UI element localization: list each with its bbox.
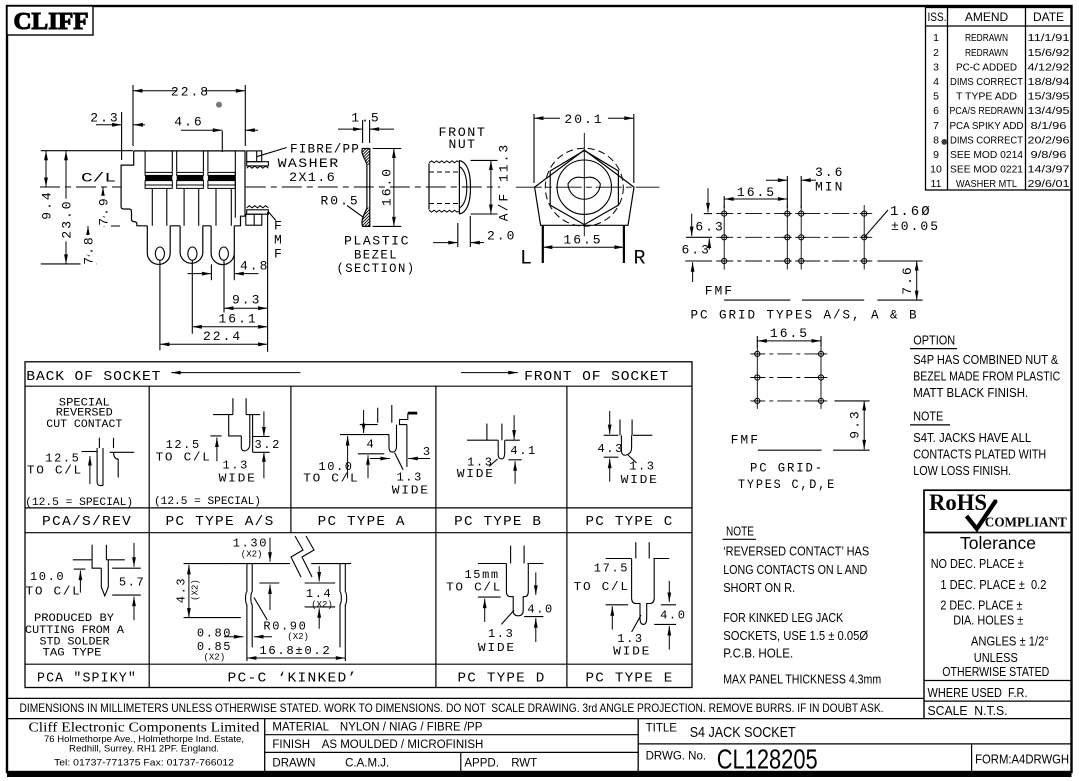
svg-text:9.4: 9.4 xyxy=(40,190,55,219)
svg-text:PC-C ADDED: PC-C ADDED xyxy=(956,61,1017,73)
label FIBRE/PP WASHER 2X1.6 with leader xyxy=(257,142,360,186)
dimension 9.4 (vertical) xyxy=(40,151,55,220)
svg-text:PLASTIC: PLASTIC xyxy=(344,234,410,249)
svg-text:PC GRID TYPES A/S, A & B: PC GRID TYPES A/S, A & B xyxy=(691,308,919,323)
label 1.6 dia +/-0.05 with leader xyxy=(864,204,940,237)
svg-text:(12.5 = SPECIAL): (12.5 = SPECIAL) xyxy=(25,497,133,509)
svg-text:23.0: 23.0 xyxy=(60,199,75,238)
svg-text:MATT BLACK FINISH.: MATT BLACK FINISH. xyxy=(913,385,1028,400)
svg-text:REDRAWN: REDRAWN xyxy=(965,47,1008,59)
svg-text:REDRAWN: REDRAWN xyxy=(965,32,1008,44)
side view: contact 2 tail lines xyxy=(183,188,185,225)
dimension 4.8 xyxy=(188,255,270,280)
PC grid C,D,E: hole pattern xyxy=(750,346,828,409)
svg-text:22.8: 22.8 xyxy=(171,85,210,100)
svg-text:S4 JACK SOCKET: S4 JACK SOCKET xyxy=(690,724,796,741)
svg-text:3: 3 xyxy=(933,61,939,73)
svg-text:1.6Ø: 1.6Ø xyxy=(890,204,932,220)
front view: pentagon body outline xyxy=(535,150,634,225)
svg-text:FRONT OF SOCKET: FRONT OF SOCKET xyxy=(524,369,669,385)
side view: rear bush, nut and fibre washer (bottom) xyxy=(246,206,269,226)
dimension A/F 11.3 xyxy=(471,143,512,221)
svg-text:WIDE: WIDE xyxy=(392,484,430,498)
svg-text:2.3: 2.3 xyxy=(90,111,119,126)
svg-text:OPTION: OPTION xyxy=(913,333,955,348)
title PC GRID- TYPES C,D,E xyxy=(738,461,836,493)
front nut threaded bush xyxy=(429,161,459,212)
svg-text:WIDE: WIDE xyxy=(457,467,495,481)
svg-text:(X2): (X2) xyxy=(311,600,333,610)
front view: hex nut outline xyxy=(550,151,618,225)
side view: contact stack 3 (black insulator stripe) xyxy=(208,172,235,225)
side view: top slot 2 xyxy=(202,151,204,172)
dimension 16.5 (grid C,D,E) xyxy=(757,326,821,347)
svg-text:8: 8 xyxy=(933,134,939,146)
left extension ticks xyxy=(41,150,133,152)
svg-text:COMPLIANT: COMPLIANT xyxy=(985,516,1068,531)
svg-text:3.2: 3.2 xyxy=(255,438,281,452)
svg-text:FIBRE/PP: FIBRE/PP xyxy=(290,142,360,157)
front view: centre lines xyxy=(516,133,660,236)
label FRONT NUT xyxy=(439,125,487,152)
svg-text:4.8: 4.8 xyxy=(240,259,269,274)
svg-text:20.1: 20.1 xyxy=(564,112,603,127)
dimension 2.3 xyxy=(90,111,145,161)
svg-text:10.0: 10.0 xyxy=(30,570,65,584)
svg-text:DIMS CORRECT: DIMS CORRECT xyxy=(950,134,1024,146)
svg-text:WASHER: WASHER xyxy=(278,156,340,171)
svg-text:SEE MOD 0221: SEE MOD 0221 xyxy=(950,164,1023,176)
NOTE S4T text block xyxy=(910,409,1046,478)
svg-text:PCA ″SPIKY″: PCA ″SPIKY″ xyxy=(37,671,137,687)
svg-text:APPD.: APPD. xyxy=(464,758,499,770)
svg-text:WASHER MTL: WASHER MTL xyxy=(956,178,1017,190)
svg-text:BEZEL MADE FROM PLASTIC: BEZEL MADE FROM PLASTIC xyxy=(913,368,1060,383)
svg-text:DIMENSIONS IN MILLIMETERS UNLE: DIMENSIONS IN MILLIMETERS UNLESS OTHERWI… xyxy=(20,701,884,715)
svg-text:Redhill, Surrey. RH1 2PF. Engl: Redhill, Surrey. RH1 2PF. England. xyxy=(69,744,219,754)
svg-text:S4T. JACKS HAVE ALL: S4T. JACKS HAVE ALL xyxy=(913,430,1031,445)
svg-text:1.4: 1.4 xyxy=(306,587,332,601)
svg-text:1.3: 1.3 xyxy=(629,460,655,474)
svg-text:1.5: 1.5 xyxy=(351,111,380,126)
svg-text:FOR KINKED LEG JACK: FOR KINKED LEG JACK xyxy=(723,610,843,625)
svg-text:(X2): (X2) xyxy=(287,632,309,642)
svg-text:AS MOULDED / MICROFINISH: AS MOULDED / MICROFINISH xyxy=(322,739,484,751)
plastic bezel section profile with hatching xyxy=(359,141,371,239)
svg-text:7.6: 7.6 xyxy=(900,265,915,294)
svg-text:CLIFF: CLIFF xyxy=(14,9,89,35)
svg-text:PC TYPE A/S: PC TYPE A/S xyxy=(166,514,275,530)
svg-text:16.1: 16.1 xyxy=(219,311,258,326)
svg-text:PC GRID-: PC GRID- xyxy=(750,461,824,476)
svg-text:WHERE USED F.R.: WHERE USED F.R. xyxy=(928,686,1028,700)
svg-text:3.6: 3.6 xyxy=(815,165,844,180)
svg-text:‘REVERSED CONTACT’ HAS: ‘REVERSED CONTACT’ HAS xyxy=(723,544,869,559)
NOTE reversed contact text block xyxy=(723,524,870,596)
svg-text:2X1.6: 2X1.6 xyxy=(289,170,336,185)
svg-text:1: 1 xyxy=(933,32,939,44)
svg-text:R0.5: R0.5 xyxy=(321,194,360,209)
svg-text:7.8: 7.8 xyxy=(82,235,97,264)
centre line C/L through side, bezel and nut views xyxy=(40,186,121,188)
svg-text:4.0: 4.0 xyxy=(527,603,553,617)
svg-text:8/1/96: 8/1/96 xyxy=(1031,120,1067,132)
svg-text:29/6/01: 29/6/01 xyxy=(1028,178,1070,190)
svg-text:(X2): (X2) xyxy=(204,653,226,663)
svg-text:UNLESS: UNLESS xyxy=(974,650,1018,665)
svg-text:9.3: 9.3 xyxy=(232,293,261,308)
front view: jack tip contact opening xyxy=(568,177,600,199)
svg-text:(X2): (X2) xyxy=(191,579,201,601)
svg-text:20/2/96: 20/2/96 xyxy=(1028,134,1070,146)
lug hole extension lines xyxy=(159,260,161,350)
svg-text:RWT: RWT xyxy=(511,758,537,770)
svg-text:WIDE: WIDE xyxy=(613,645,651,659)
svg-text:AMEND: AMEND xyxy=(965,10,1009,24)
svg-text:TAG TYPE: TAG TYPE xyxy=(43,648,102,660)
svg-text:Cliff Electronic Components Li: Cliff Electronic Components Limited xyxy=(29,720,260,735)
svg-text:1.3: 1.3 xyxy=(223,459,249,473)
side view: contact 3 tail lines xyxy=(215,188,217,225)
label R0.5 with leader xyxy=(321,194,363,217)
table header BACK OF SOCKET xyxy=(26,369,300,385)
svg-text:OTHERWISE STATED: OTHERWISE STATED xyxy=(942,664,1049,679)
dimension 3.6 MIN xyxy=(766,165,844,208)
svg-text:6.3: 6.3 xyxy=(682,243,711,258)
svg-text:1 DEC. PLACE ± 0.2: 1 DEC. PLACE ± 0.2 xyxy=(940,577,1046,592)
front view: right leg xyxy=(623,226,625,263)
title block drawing number row xyxy=(646,744,1070,775)
cell PC TYPE B contact detail xyxy=(457,415,537,484)
svg-text:F: F xyxy=(274,247,282,262)
front nut head profile xyxy=(459,160,470,214)
RoHS compliant logo box xyxy=(924,490,1072,533)
PC contact types table grid xyxy=(25,362,692,688)
svg-text:18/8/94: 18/8/94 xyxy=(1028,76,1070,88)
FMF datum extension line (side view right) xyxy=(267,212,269,352)
revision 8 marker dot xyxy=(941,139,947,145)
svg-text:WIDE: WIDE xyxy=(219,472,257,486)
where used row xyxy=(924,686,1072,701)
dimension 7.9 (vertical) xyxy=(97,187,112,226)
svg-text:MATERIAL: MATERIAL xyxy=(272,722,329,734)
svg-text:PC TYPE E: PC TYPE E xyxy=(586,671,674,687)
svg-text:TO C/L: TO C/L xyxy=(27,464,83,478)
svg-text:PC TYPE D: PC TYPE D xyxy=(458,671,546,687)
FMF datum line (grid C,D,E) xyxy=(731,433,870,451)
svg-text:DRWG. No.: DRWG. No. xyxy=(646,751,707,763)
svg-text:MAX PANEL THICKNESS 4.3mm: MAX PANEL THICKNESS 4.3mm xyxy=(723,672,881,687)
svg-text:C/L: C/L xyxy=(81,171,116,186)
dimension 7.8 (vertical) xyxy=(82,226,97,265)
side view: contact stack 1 (black insulator stripe) xyxy=(145,172,172,225)
svg-text:LOW LOSS FINISH.: LOW LOSS FINISH. xyxy=(913,463,1011,478)
svg-text:SOCKETS, USE 1.5 ± 0.05Ø: SOCKETS, USE 1.5 ± 0.05Ø xyxy=(723,628,868,643)
svg-text:TITLE: TITLE xyxy=(646,723,678,735)
svg-text:6.3: 6.3 xyxy=(695,220,724,235)
svg-text:1.3: 1.3 xyxy=(488,627,514,641)
svg-text:CONTACTS PLATED WITH: CONTACTS PLATED WITH xyxy=(913,447,1046,462)
svg-text:M: M xyxy=(274,233,282,248)
svg-text:13/4/95: 13/4/95 xyxy=(1028,105,1070,117)
svg-text:BACK OF SOCKET: BACK OF SOCKET xyxy=(26,369,161,385)
svg-text:REVERSED: REVERSED xyxy=(56,408,113,420)
svg-text:SEE MOD 0214: SEE MOD 0214 xyxy=(950,149,1023,161)
cell PC-C KINKED contact detail xyxy=(175,536,352,663)
svg-text:A/F 11.3: A/F 11.3 xyxy=(497,143,512,221)
svg-text:NOTE: NOTE xyxy=(726,524,754,539)
svg-text:4.6: 4.6 xyxy=(174,115,203,130)
svg-text:4/12/92: 4/12/92 xyxy=(1028,61,1070,73)
dimension 9.3 (grid C,D,E) xyxy=(835,401,870,450)
svg-text:0.80: 0.80 xyxy=(197,627,232,641)
svg-text:FINISH: FINISH xyxy=(272,739,310,751)
front view: left leg xyxy=(542,226,544,263)
svg-text:5.7: 5.7 xyxy=(119,576,145,590)
tolerance box xyxy=(924,533,1072,719)
svg-text:15/3/95: 15/3/95 xyxy=(1028,91,1070,103)
svg-text:15/6/92: 15/6/92 xyxy=(1028,47,1070,59)
svg-text:7: 7 xyxy=(933,120,939,132)
svg-text:16.5: 16.5 xyxy=(770,326,809,341)
dimension 2.0 xyxy=(433,216,516,247)
svg-text:TO C/L: TO C/L xyxy=(156,451,212,465)
svg-text:PC TYPE A: PC TYPE A xyxy=(318,514,406,530)
cell PC TYPE E contact detail xyxy=(574,542,687,658)
svg-text:16.8±0.2: 16.8±0.2 xyxy=(259,644,331,658)
side view: solder lug 3 with hole xyxy=(211,226,234,265)
svg-text:DRAWN: DRAWN xyxy=(272,758,315,770)
cell PC TYPE A/S contact detail xyxy=(154,398,281,508)
svg-text:PC TYPE B: PC TYPE B xyxy=(454,514,542,530)
svg-text:1.30: 1.30 xyxy=(233,537,268,551)
svg-text:NYLON / NIAG / FIBRE /PP: NYLON / NIAG / FIBRE /PP xyxy=(340,722,483,734)
svg-text:PC-C ‘KINKED’: PC-C ‘KINKED’ xyxy=(228,671,358,687)
svg-text:17.5: 17.5 xyxy=(594,562,629,576)
svg-text:CUT CONTACT: CUT CONTACT xyxy=(46,419,122,431)
dimension 6.3 (rows 1-2) xyxy=(686,188,725,237)
svg-text:SHORT ON R.: SHORT ON R. xyxy=(723,580,795,595)
dimension 20.1 xyxy=(534,112,634,183)
svg-text:(X2): (X2) xyxy=(241,550,263,560)
svg-text:RoHS: RoHS xyxy=(929,490,987,515)
dimension 16.0 (bezel dia) xyxy=(373,149,402,227)
svg-text:T TYPE ADD: T TYPE ADD xyxy=(956,91,1017,103)
svg-text:LONG CONTACTS ON L AND: LONG CONTACTS ON L AND xyxy=(723,562,867,577)
svg-text:(SECTION): (SECTION) xyxy=(337,261,416,276)
svg-text:16.0: 16.0 xyxy=(380,167,395,206)
dimension 7.6 xyxy=(877,261,922,300)
cell PC TYPE D contact detail xyxy=(446,546,554,655)
side view: solder lug 1 with hole xyxy=(147,226,170,265)
title block material/finish/drawn rows xyxy=(265,719,639,772)
svg-text:6: 6 xyxy=(933,105,939,117)
svg-text:NOTE: NOTE xyxy=(913,409,943,424)
svg-text:7.9: 7.9 xyxy=(97,196,112,225)
svg-text:PRODUCED BY: PRODUCED BY xyxy=(34,613,114,625)
svg-text:S4P HAS COMBINED NUT &: S4P HAS COMBINED NUT & xyxy=(913,352,1058,367)
revision history table (ISS / AMEND / DATE) xyxy=(926,8,1072,191)
dimension disclaimer strip xyxy=(7,698,1072,718)
PC grid A/S,A,B: hole pattern xyxy=(716,205,872,269)
side view: socket body outline xyxy=(121,151,245,226)
svg-text:F: F xyxy=(274,219,282,234)
svg-text:TO C/L: TO C/L xyxy=(26,585,82,599)
svg-text:10: 10 xyxy=(930,164,942,176)
front view: bezel circle xyxy=(557,160,611,214)
svg-text:ANGLES ± 1/2°: ANGLES ± 1/2° xyxy=(971,634,1049,649)
svg-text:Tel: 01737-771375 Fax: 01737-7: Tel: 01737-771375 Fax: 01737-766012 xyxy=(54,758,234,769)
svg-text:WIDE: WIDE xyxy=(621,473,659,487)
title block title row xyxy=(638,723,1071,744)
svg-text:16.5: 16.5 xyxy=(737,185,776,200)
svg-text:FMF: FMF xyxy=(731,433,760,448)
svg-text:NO DEC. PLACE ±: NO DEC. PLACE ± xyxy=(931,556,1024,571)
table header FRONT OF SOCKET xyxy=(461,369,669,385)
svg-text:FORM:A4DRWGH: FORM:A4DRWGH xyxy=(975,753,1069,767)
svg-text:22.4: 22.4 xyxy=(203,329,242,344)
svg-text:4: 4 xyxy=(367,438,376,452)
dimension 4.6 xyxy=(174,115,258,153)
title block company cell xyxy=(29,719,265,772)
dimension 22.4 xyxy=(160,329,268,346)
svg-text:ISS.: ISS. xyxy=(928,10,947,24)
svg-text:PCA/S REDRAWN: PCA/S REDRAWN xyxy=(950,105,1024,117)
svg-text:DIMS CORRECT: DIMS CORRECT xyxy=(950,76,1024,88)
svg-text:CL128205: CL128205 xyxy=(717,744,818,775)
svg-text:2 DEC. PLACE ±: 2 DEC. PLACE ± xyxy=(940,598,1022,613)
svg-text:4: 4 xyxy=(933,76,939,88)
svg-text:4.3: 4.3 xyxy=(175,577,189,603)
OPTION note text block xyxy=(910,333,1060,400)
label FMF (side view) with leader xyxy=(268,212,281,262)
dimension 9.3 xyxy=(224,293,268,311)
svg-text:9/8/96: 9/8/96 xyxy=(1031,149,1067,161)
svg-text:R: R xyxy=(633,248,645,271)
svg-text:CUTTING FROM A: CUTTING FROM A xyxy=(25,625,124,637)
svg-text:11/1/91: 11/1/91 xyxy=(1028,32,1070,44)
svg-text:11: 11 xyxy=(931,178,942,190)
side view: inner vertical wall lines xyxy=(144,151,146,173)
svg-text:Tolerance: Tolerance xyxy=(960,533,1036,553)
index dot marker xyxy=(216,102,222,108)
dimension 16.5 (grid) xyxy=(724,176,787,208)
FMF datum line (grid A/S,A,B) xyxy=(705,284,923,301)
svg-text:DIA. HOLES ±: DIA. HOLES ± xyxy=(953,613,1023,628)
svg-text:4.0: 4.0 xyxy=(660,609,686,623)
svg-text:TO C/L: TO C/L xyxy=(574,580,630,594)
side view: solder lug 2 with hole xyxy=(180,226,203,264)
svg-text:PCA/S/REV: PCA/S/REV xyxy=(42,514,132,530)
svg-text:±0.05: ±0.05 xyxy=(891,219,940,234)
svg-text:5: 5 xyxy=(933,91,939,103)
svg-text:(12.5 = SPECIAL): (12.5 = SPECIAL) xyxy=(154,496,261,508)
svg-text:3: 3 xyxy=(423,445,432,459)
side view: rear bush, nut and fibre washer (top) xyxy=(247,151,269,168)
svg-text:NUT: NUT xyxy=(449,137,477,152)
svg-text:MIN: MIN xyxy=(815,180,844,195)
label PLASTIC BEZEL (SECTION) xyxy=(337,234,416,277)
svg-text:PCA SPIKY ADD: PCA SPIKY ADD xyxy=(950,120,1024,132)
dimension 16.1 xyxy=(192,311,267,328)
svg-text:2.0: 2.0 xyxy=(487,229,516,244)
svg-text:4.3: 4.3 xyxy=(598,442,624,456)
cell PC TYPE A contact detail xyxy=(303,405,431,498)
svg-text:WIDE: WIDE xyxy=(478,641,516,655)
svg-text:TYPES C,D,E: TYPES C,D,E xyxy=(738,477,836,492)
svg-text:9: 9 xyxy=(933,149,939,161)
dimension 1.5 (bezel thickness) xyxy=(338,111,394,144)
dimension 16.5 (front view) xyxy=(543,233,624,250)
svg-text:16.5: 16.5 xyxy=(563,233,602,248)
side view: top slot 1 xyxy=(171,151,173,172)
svg-text:L: L xyxy=(520,248,532,271)
svg-text:SCALE N.T.S.: SCALE N.T.S. xyxy=(928,704,1008,718)
front view: thread dashed circle xyxy=(545,148,623,226)
svg-text:14/3/97: 14/3/97 xyxy=(1028,164,1070,176)
cell PC TYPE C contact detail xyxy=(598,411,659,487)
svg-text:76 Holmethorpe Ave., Holmethor: 76 Holmethorpe Ave., Holmethorpe Ind. Es… xyxy=(44,734,244,744)
svg-text:DATE: DATE xyxy=(1033,10,1064,24)
svg-text:P.C.B. HOLE.: P.C.B. HOLE. xyxy=(723,646,793,661)
svg-text:FMF: FMF xyxy=(705,284,734,299)
svg-text:4.1: 4.1 xyxy=(510,444,536,458)
side view: contact 1 tail lines xyxy=(151,188,153,225)
cell PCA SPIKY contact detail xyxy=(25,543,145,660)
svg-text:TO C/L: TO C/L xyxy=(446,581,502,595)
CLIFF logo box xyxy=(7,6,93,35)
note kinked leg text block xyxy=(723,610,868,661)
svg-text:TO C/L: TO C/L xyxy=(303,472,359,486)
svg-text:1.3: 1.3 xyxy=(397,471,423,485)
dimension 23.0 (vertical) xyxy=(60,151,75,264)
svg-text:2: 2 xyxy=(933,47,939,59)
dimension 6.3 (rows 2-3) xyxy=(682,239,713,283)
svg-text:C.A.M.J.: C.A.M.J. xyxy=(345,758,389,770)
cell PCA/S/REV: special reversed cut contact xyxy=(25,397,134,509)
svg-text:PC TYPE C: PC TYPE C xyxy=(586,514,674,530)
dimension 22.8 (top width) xyxy=(133,85,245,147)
side view: contact stack 2 (black insulator stripe) xyxy=(177,172,204,225)
svg-text:9.3: 9.3 xyxy=(848,409,863,438)
